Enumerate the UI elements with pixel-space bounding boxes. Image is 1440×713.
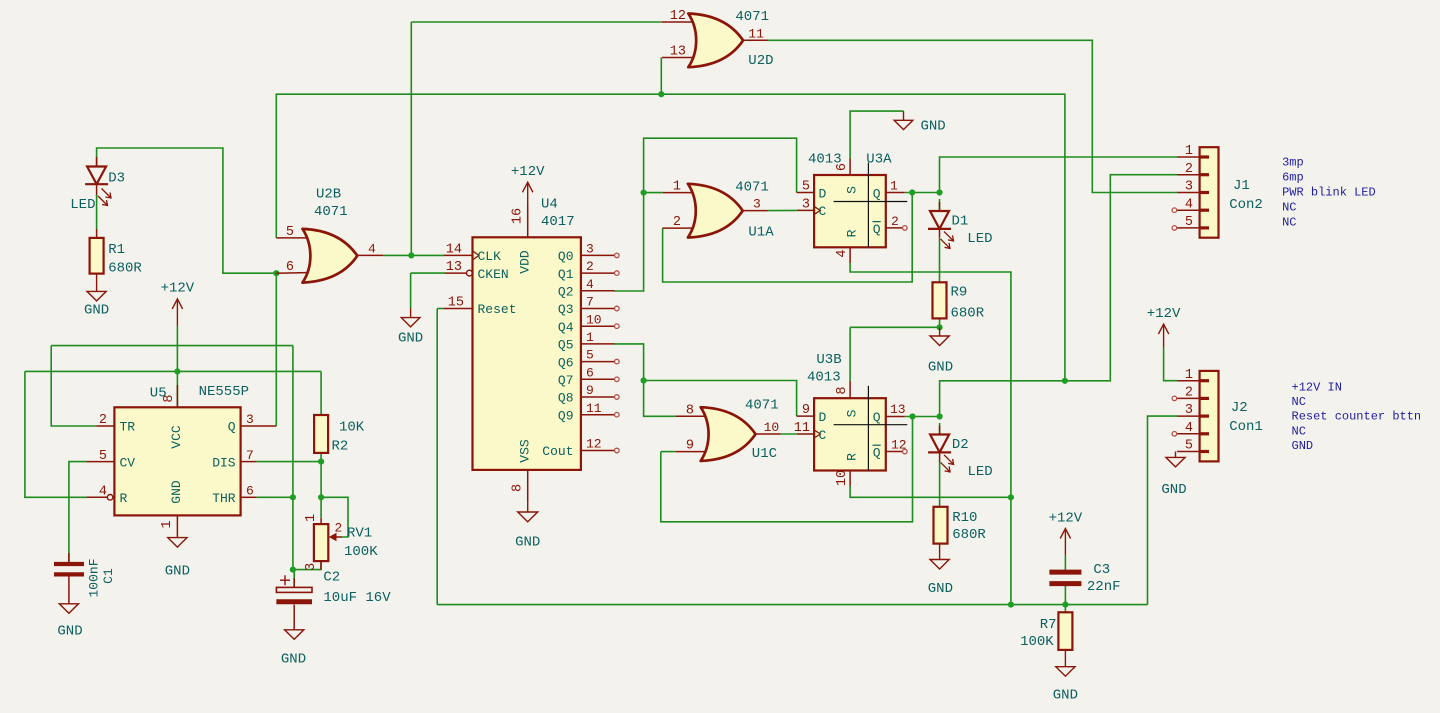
wire D1 cathode to R9 [939, 238, 941, 282]
svg-text:6: 6 [246, 484, 254, 499]
wire U4 Q2 to U3A D [614, 138, 797, 291]
svg-text:3: 3 [304, 563, 319, 571]
junction [318, 459, 324, 465]
svg-text:6: 6 [286, 260, 294, 275]
LED D2 [928, 426, 993, 481]
resistor R1 680R [90, 238, 104, 274]
wire U5 DIS to R2 bottom [256, 461, 321, 463]
svg-text:2: 2 [586, 259, 594, 274]
svg-text:10uF 16V: 10uF 16V [323, 590, 391, 606]
svg-text:U2B: U2B [316, 186, 341, 202]
connector J2 Con1 [1177, 371, 1218, 462]
svg-text:Q: Q [873, 445, 881, 460]
svg-text:GND: GND [165, 564, 190, 580]
svg-text:8: 8 [686, 403, 694, 418]
capacitor C1 100nF [54, 553, 116, 604]
svg-text:U2D: U2D [748, 53, 773, 69]
wire U2B output to U4 CLK [383, 254, 443, 256]
svg-text:PWR blink LED: PWR blink LED [1282, 186, 1376, 200]
svg-text:+12V: +12V [1147, 306, 1181, 322]
svg-text:1: 1 [304, 514, 319, 522]
svg-text:Reset: Reset [478, 302, 517, 317]
C2 labels [323, 570, 391, 607]
svg-text:U4: U4 [541, 197, 558, 213]
svg-text:680R: 680R [952, 527, 986, 543]
svg-text:S: S [845, 186, 860, 194]
svg-text:GND: GND [57, 624, 82, 640]
svg-text:Q5: Q5 [558, 338, 574, 353]
svg-text:5: 5 [1185, 215, 1193, 230]
wire U3A R to reset rail [850, 263, 1011, 605]
svg-text:3: 3 [246, 412, 254, 427]
svg-text:2: 2 [1185, 162, 1193, 177]
svg-text:15: 15 [448, 296, 464, 311]
svg-text:CKEN: CKEN [478, 267, 509, 282]
wire rail to R7 [1064, 605, 1066, 613]
OR gate U1A 4071 [688, 184, 743, 238]
svg-text:GND: GND [921, 118, 946, 134]
svg-text:2: 2 [891, 214, 899, 229]
svg-text:Q0: Q0 [558, 249, 574, 264]
resistor R7 100K [1058, 612, 1072, 650]
svg-text:C2: C2 [323, 570, 340, 586]
U3A reference and value [808, 152, 892, 168]
R9 labels [951, 285, 985, 322]
R1 labels [108, 242, 142, 277]
svg-text:GND: GND [1053, 688, 1078, 704]
wire reset bottom rail [437, 604, 1147, 606]
svg-text:S: S [845, 409, 860, 417]
svg-text:4071: 4071 [735, 9, 769, 25]
svg-text:8: 8 [510, 484, 525, 492]
capacitor C3 22nF [1049, 572, 1081, 584]
U4 pin names [478, 249, 574, 463]
svg-text:GND: GND [169, 480, 184, 504]
junction [174, 368, 180, 374]
wire U3B Q [905, 416, 940, 418]
svg-text:2: 2 [99, 413, 107, 428]
svg-text:CV: CV [120, 455, 136, 470]
svg-text:Con1: Con1 [1229, 419, 1263, 435]
wire U4 CKEN [411, 272, 445, 274]
junction [658, 91, 664, 97]
J2 reference and value [1229, 400, 1263, 435]
U4 pin numbers [446, 208, 602, 492]
svg-text:VSS: VSS [518, 439, 533, 463]
svg-text:Con2: Con2 [1229, 197, 1263, 213]
junction [290, 567, 296, 573]
svg-text:D2: D2 [952, 437, 969, 453]
U3A pin numbers [802, 163, 899, 258]
wire R9 bottom [939, 318, 941, 327]
svg-text:3: 3 [802, 197, 810, 212]
svg-text:10: 10 [586, 312, 602, 327]
U3B pin numbers [794, 386, 907, 486]
wire D2 anode to J1 pin 2 [940, 175, 1178, 417]
wire U1C pin 9 [661, 451, 676, 453]
junction [273, 270, 279, 276]
wire U3A S to ground [850, 111, 903, 158]
U1A pins [663, 193, 768, 229]
U4 unconnected pin markers [615, 253, 620, 453]
wire VCC pin 8 [176, 371, 178, 407]
svg-text:4071: 4071 [735, 179, 769, 195]
ground J2 pin 5 [1161, 452, 1186, 499]
wire +12V to R2 top [320, 371, 322, 415]
svg-text:9: 9 [686, 439, 694, 454]
svg-text:4: 4 [99, 485, 107, 500]
svg-text:VDD: VDD [518, 250, 533, 274]
svg-text:13: 13 [890, 402, 906, 417]
svg-text:5: 5 [1185, 439, 1193, 454]
wire U2D pin 12 [411, 21, 662, 23]
wire U1A output to U3A C [768, 209, 797, 211]
wire U3A Q [905, 192, 940, 194]
svg-text:GND: GND [1161, 482, 1186, 498]
svg-text:Q3: Q3 [558, 302, 574, 317]
wire D3 to U2B pin 6 [97, 148, 277, 273]
U4 Cout pin [581, 450, 615, 452]
potentiometer RV1 100K [314, 518, 342, 570]
svg-text:J2: J2 [1231, 400, 1248, 416]
wire U3B R to reset rail [850, 486, 1011, 497]
J2 unconnected pin markers [1172, 396, 1177, 436]
svg-text:GND: GND [515, 535, 540, 551]
svg-text:NC: NC [1282, 215, 1296, 229]
U3B reference and value [807, 352, 842, 386]
svg-text:GND: GND [84, 303, 109, 319]
U2B pin numbers [286, 225, 376, 275]
svg-text:1: 1 [586, 330, 594, 345]
svg-text:J1: J1 [1233, 178, 1250, 194]
svg-text:C3: C3 [1093, 562, 1110, 578]
svg-text:4: 4 [1185, 197, 1193, 212]
wire C2 top stub [293, 570, 295, 588]
J2 net name labels [1292, 381, 1422, 453]
svg-text:3: 3 [586, 242, 594, 257]
svg-text:5: 5 [286, 225, 294, 240]
wire U3B S drop [849, 327, 851, 381]
+12V power C3 [1049, 510, 1083, 555]
svg-text:4013: 4013 [808, 152, 842, 168]
svg-text:LED: LED [968, 464, 993, 480]
ground R10 [928, 544, 953, 597]
svg-text:Q8: Q8 [558, 391, 574, 406]
svg-text:R: R [845, 453, 860, 461]
junction [937, 324, 943, 330]
IC U4 4017 [443, 205, 581, 502]
wire U2D output to J1 pin 3 [767, 40, 1177, 192]
wire D1 anode stub [939, 199, 941, 211]
junction [909, 413, 915, 419]
junction [641, 377, 647, 383]
svg-text:R1: R1 [108, 242, 125, 258]
svg-text:NE555P: NE555P [199, 384, 249, 400]
svg-text:Q4: Q4 [558, 320, 574, 335]
svg-text:3: 3 [1185, 403, 1193, 418]
ground U5 pin 1 [165, 538, 190, 580]
RV1 labels [344, 526, 378, 561]
svg-text:Q: Q [873, 186, 881, 201]
svg-text:1: 1 [160, 520, 175, 528]
svg-text:+12V: +12V [161, 281, 195, 297]
U1C reference and value [745, 398, 779, 463]
svg-text:D: D [819, 186, 827, 201]
junction [641, 190, 647, 196]
resistor R2 10K [314, 415, 328, 453]
IC U3A 4013 [797, 159, 908, 264]
svg-text:VCC: VCC [169, 425, 184, 449]
svg-text:R9: R9 [951, 285, 968, 301]
svg-text:Reset counter bttn: Reset counter bttn [1292, 410, 1422, 424]
junction [1062, 378, 1068, 384]
wire +12V to U5 R pin [25, 371, 87, 497]
U3A pin names [819, 186, 881, 238]
svg-text:10: 10 [835, 470, 850, 486]
J1 reference and value [1229, 178, 1263, 213]
svg-text:U1A: U1A [748, 224, 774, 240]
svg-text:Q1: Q1 [558, 267, 574, 282]
wire U4 Q5 to U3B D [614, 344, 797, 416]
svg-text:+12V IN: +12V IN [1292, 381, 1342, 395]
svg-text:10: 10 [764, 420, 780, 435]
wire Reset drop [436, 309, 438, 605]
wire D2 cathode to R10 [939, 461, 941, 507]
wire +12V to C3 [1064, 555, 1066, 570]
svg-text:13: 13 [670, 45, 686, 60]
ground U4 VSS [515, 502, 540, 550]
svg-text:12: 12 [586, 437, 602, 452]
OR gate U2B 4071 [303, 229, 358, 283]
U5 reference and value [150, 384, 249, 402]
svg-text:LED: LED [967, 231, 992, 247]
svg-text:1: 1 [673, 180, 681, 195]
svg-text:NC: NC [1292, 395, 1306, 409]
svg-text:22nF: 22nF [1087, 579, 1121, 595]
svg-text:R: R [845, 229, 860, 237]
wire RV1 wiper tie [321, 497, 348, 537]
+12V power U4 [511, 164, 545, 205]
U2D reference and value [735, 9, 773, 69]
svg-text:4: 4 [1185, 421, 1193, 436]
svg-text:7: 7 [246, 448, 254, 463]
svg-text:D3: D3 [108, 170, 125, 186]
wire U5 THR [256, 496, 293, 498]
svg-text:2: 2 [1185, 386, 1193, 401]
svg-text:C1: C1 [101, 568, 116, 584]
svg-text:C: C [819, 204, 827, 219]
wire branch to U1A pin 1 [644, 192, 663, 194]
wire U2B output up to U2D pin 12 [410, 22, 412, 255]
R7 labels [1020, 617, 1056, 650]
svg-text:2: 2 [335, 521, 343, 536]
R2 labels [332, 420, 365, 455]
svg-text:Q2: Q2 [558, 285, 574, 300]
U2B reference and value [314, 186, 348, 220]
ground R9 [928, 327, 953, 375]
wire U3B Q feedback to U1C pin 9 [661, 417, 913, 522]
svg-text:Cout: Cout [542, 444, 573, 459]
svg-text:100K: 100K [344, 544, 378, 560]
svg-text:9: 9 [802, 403, 810, 418]
svg-text:1: 1 [1185, 144, 1193, 159]
wire U2B pin 6 to U5 Q [275, 273, 277, 426]
svg-text:DIS: DIS [212, 455, 236, 470]
junction [1008, 494, 1014, 500]
svg-text:GND: GND [281, 652, 306, 668]
U1A pin numbers [673, 180, 761, 231]
R10 labels [952, 510, 986, 543]
wire U4 CKEN to ground [410, 273, 412, 308]
svg-text:3mp: 3mp [1282, 156, 1304, 170]
svg-text:8: 8 [835, 386, 850, 394]
svg-text:5: 5 [586, 348, 594, 363]
wire rail up to J2 pin 3 [1148, 416, 1178, 604]
svg-text:4: 4 [586, 277, 594, 292]
svg-text:2: 2 [673, 215, 681, 230]
wire DIS to RV1 pin 1 [320, 462, 322, 518]
RV1 pin numbers [304, 514, 342, 571]
ground U3A S [894, 111, 946, 134]
U4 output pins [581, 255, 615, 414]
C3 labels [1087, 562, 1121, 595]
svg-text:4017: 4017 [541, 214, 575, 230]
U1A reference and value [735, 179, 774, 240]
svg-text:R2: R2 [332, 439, 349, 455]
J1 net name labels [1282, 156, 1376, 230]
J1 unconnected pin markers [1172, 208, 1177, 230]
junction [936, 189, 942, 195]
svg-text:GND: GND [928, 360, 953, 376]
svg-text:4: 4 [835, 249, 850, 257]
OR gate U1C 4071 [701, 407, 756, 461]
wire U2B pin 5 feedback rail [276, 94, 1065, 381]
svg-text:5: 5 [802, 180, 810, 195]
connector J1 Con2 [1177, 147, 1218, 238]
wire U3A Q feedback to U1A pin 2 [663, 193, 913, 283]
wire THR column to C2 [292, 346, 294, 570]
svg-text:Q9: Q9 [558, 408, 574, 423]
svg-text:1: 1 [1185, 368, 1193, 383]
ground R1 [84, 274, 109, 319]
svg-text:CLK: CLK [478, 249, 502, 264]
svg-text:U3A: U3A [866, 152, 892, 168]
svg-text:R: R [120, 491, 128, 506]
svg-text:GND: GND [398, 331, 423, 347]
svg-text:NC: NC [1292, 424, 1306, 438]
svg-text:U5: U5 [150, 386, 167, 402]
wire D3 to R1 [96, 195, 98, 229]
wire RV1 pin 3 to C2 [294, 561, 321, 570]
wire D2 anode stub [939, 423, 941, 434]
capacitor C2 10uF 16V [276, 575, 312, 630]
wire D1 anode to J1 pin 1 [940, 157, 1178, 193]
svg-text:U1C: U1C [752, 446, 777, 462]
svg-text:16: 16 [510, 208, 525, 224]
wire U5 CV to C1 [69, 462, 87, 562]
J2 pin numbers [1185, 368, 1193, 454]
junction [1062, 602, 1068, 608]
svg-text:10K: 10K [339, 420, 365, 436]
svg-text:4013: 4013 [807, 370, 841, 386]
svg-text:12: 12 [891, 438, 907, 453]
U3B pin names [819, 409, 881, 461]
ground U4 CKEN [398, 308, 423, 346]
U2B pins [276, 238, 383, 273]
+12V power U5 [161, 281, 195, 327]
svg-text:R10: R10 [952, 510, 977, 526]
svg-text:TR: TR [120, 420, 136, 435]
svg-text:12: 12 [670, 9, 686, 24]
junction [318, 494, 324, 500]
wire C3 to rail [1064, 585, 1066, 605]
svg-text:RV1: RV1 [347, 526, 372, 542]
svg-text:GND: GND [1292, 439, 1314, 453]
svg-text:3: 3 [753, 197, 761, 212]
U4 reference and value [541, 197, 575, 231]
svg-text:Q: Q [228, 420, 236, 435]
junction [408, 252, 414, 258]
svg-text:4: 4 [368, 241, 376, 256]
wire +12V rail [25, 370, 321, 372]
svg-text:6mp: 6mp [1282, 171, 1304, 185]
J1 pin numbers [1185, 144, 1193, 230]
svg-text:Q: Q [873, 222, 881, 237]
U5 pin numbers [99, 394, 254, 528]
junction [909, 189, 915, 195]
wire +12V to U5 VCC node [176, 326, 178, 371]
svg-text:5: 5 [99, 449, 107, 464]
svg-text:4071: 4071 [745, 398, 779, 414]
junction [937, 413, 943, 419]
svg-text:3: 3 [1185, 180, 1193, 195]
wire U4 Reset [437, 308, 443, 310]
U1C pin numbers [686, 403, 779, 453]
IC U3B 4013 [797, 381, 908, 486]
U2D pin numbers [670, 9, 764, 60]
svg-text:D1: D1 [952, 214, 969, 230]
IC U5 NE555P [87, 385, 277, 538]
svg-text:LED: LED [70, 197, 95, 213]
svg-text:680R: 680R [951, 306, 985, 322]
+12V power J2 [1147, 306, 1181, 348]
svg-text:Q6: Q6 [558, 355, 574, 370]
svg-text:11: 11 [586, 401, 602, 416]
svg-text:THR: THR [212, 491, 236, 506]
svg-text:C: C [819, 428, 827, 443]
wire R2 bottom stub [320, 453, 322, 462]
svg-text:100nF: 100nF [87, 558, 102, 597]
wire U3B S to R9 bottom [850, 326, 940, 328]
junction [290, 494, 296, 500]
svg-text:D: D [819, 410, 827, 425]
svg-text:Q7: Q7 [558, 373, 574, 388]
svg-text:9: 9 [586, 383, 594, 398]
svg-text:6: 6 [586, 365, 594, 380]
ground C1 [57, 604, 82, 640]
ground R7 [1053, 650, 1078, 704]
svg-text:14: 14 [446, 242, 462, 257]
wire U1C output to U3B C [781, 433, 797, 435]
svg-text:+12V: +12V [1049, 510, 1083, 526]
U2D pins [662, 22, 768, 58]
svg-text:NC: NC [1282, 200, 1296, 214]
LED D1 [928, 202, 993, 248]
wire +12V to J2 pin 1 [1164, 348, 1178, 381]
resistor R10 680R [934, 507, 948, 544]
svg-text:4071: 4071 [314, 204, 348, 220]
svg-text:U3B: U3B [816, 352, 841, 368]
